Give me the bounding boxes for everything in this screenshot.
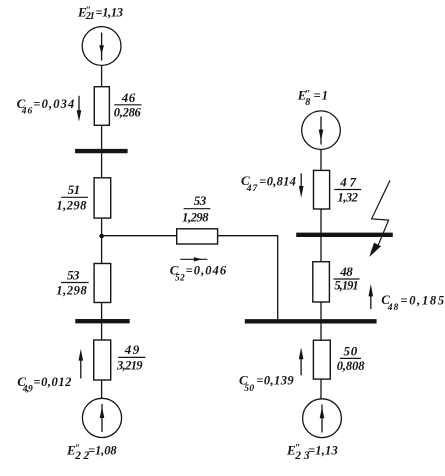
- bus bar 3 (fault bus): [296, 233, 393, 237]
- svg-text:=0,814: =0,814: [259, 175, 296, 189]
- svg-text:53: 53: [67, 267, 80, 282]
- fault lightning arrow: [369, 180, 390, 257]
- svg-text:50: 50: [344, 344, 358, 359]
- svg-text:=0,034: =0,034: [33, 97, 74, 111]
- resistor 47: [314, 170, 330, 209]
- wire bus 3 to resistor 48: [320, 237, 322, 262]
- label C47: [241, 173, 296, 194]
- svg-text:=1,13: =1,13: [308, 444, 338, 458]
- node E22 label: [66, 442, 117, 462]
- wire resistor 49 to generator G22: [101, 380, 103, 398]
- svg-text:=0,046: =0,046: [186, 264, 227, 278]
- svg-text:=0,185: =0,185: [400, 294, 444, 308]
- wire corner down to bus 4: [277, 235, 279, 319]
- bus bar 2: [75, 319, 129, 323]
- value label 53/1,298 (left): [56, 267, 88, 297]
- wire resistor 53 to corner: [218, 235, 278, 237]
- wire system source to resistor 47: [320, 150, 322, 171]
- resistor 46: [94, 87, 109, 126]
- wire junction to resistor 53 (horizontal): [102, 235, 177, 237]
- current arrow C46 (down): [77, 96, 82, 122]
- value label 49/3,219: [116, 342, 145, 373]
- system source (circle, arrow down): [302, 111, 341, 150]
- wire resistor 50 to generator G23: [320, 379, 322, 399]
- svg-text:1,298: 1,298: [56, 284, 87, 298]
- current arrow C52 (right): [180, 257, 207, 261]
- node E8 label: [297, 87, 328, 108]
- label C50: [239, 373, 294, 395]
- value label 50/0,808: [337, 344, 366, 374]
- resistor 48: [313, 262, 330, 302]
- wire bus 4 to resistor 50: [320, 324, 322, 341]
- wire resistor 47 to bus 3: [320, 209, 322, 235]
- svg-text:50: 50: [244, 384, 254, 394]
- svg-text:3,219: 3,219: [116, 359, 143, 373]
- resistor 49: [94, 340, 111, 380]
- svg-text:1,298: 1,298: [182, 211, 209, 225]
- junction node dot: [99, 234, 104, 239]
- value label 48/5,191: [334, 264, 360, 293]
- current arrow C48 (up): [369, 284, 374, 309]
- svg-text:46: 46: [21, 107, 33, 117]
- svg-text:0,808: 0,808: [337, 359, 366, 373]
- value label 53/1,298 (middle): [182, 193, 210, 225]
- svg-text:=1,08: =1,08: [88, 443, 117, 457]
- node E23 label: [286, 443, 338, 462]
- label C48: [381, 292, 444, 313]
- generator G21 (source circle, arrow down): [82, 27, 121, 66]
- wire junction to resistor 53 (left): [101, 236, 103, 264]
- svg-text:4,9: 4,9: [22, 385, 33, 395]
- current arrow C49 (up): [79, 349, 84, 379]
- value label 51/1,298: [56, 182, 88, 213]
- resistor 50: [313, 340, 330, 379]
- svg-text:5,191: 5,191: [334, 279, 358, 293]
- resistor 53 (horizontal): [177, 229, 218, 244]
- wire resistor 51 to node junction: [101, 218, 103, 236]
- wire resistor 46 to bus 1: [101, 125, 103, 149]
- wire generator G21 to resistor 46: [101, 65, 103, 86]
- label C49: [17, 374, 71, 395]
- bus bar 4: [245, 319, 377, 323]
- svg-text:8: 8: [305, 97, 310, 108]
- svg-text:47: 47: [246, 184, 259, 194]
- wire resistor 53 to bus 2: [101, 303, 103, 320]
- svg-text:51: 51: [68, 182, 81, 197]
- svg-text:52: 52: [175, 274, 185, 284]
- node E21 label: [77, 4, 123, 22]
- svg-text:=0,139: =0,139: [256, 374, 294, 388]
- svg-text:1,298: 1,298: [56, 199, 87, 213]
- resistor 51: [94, 178, 111, 218]
- label C46: [17, 96, 75, 117]
- svg-text:=0,012: =0,012: [33, 375, 71, 389]
- generator G22 (source circle, arrow up): [82, 398, 121, 437]
- current arrow C47 (down): [299, 173, 304, 198]
- bus bar 1: [75, 149, 128, 153]
- wire bus 2 to resistor 49: [101, 323, 103, 340]
- current arrow C50 (up): [299, 348, 304, 376]
- wire bus 1 to resistor 51: [101, 153, 103, 178]
- label C52: [170, 263, 227, 284]
- resistor 53 (left vertical): [94, 264, 111, 303]
- svg-text:1,32: 1,32: [338, 191, 358, 205]
- svg-text:0,286: 0,286: [114, 105, 142, 119]
- svg-text:48: 48: [339, 264, 353, 279]
- svg-text:21: 21: [85, 11, 95, 22]
- wire resistor 48 to bus 4: [320, 302, 322, 320]
- generator G23 (source circle, arrow up): [303, 399, 342, 438]
- svg-text:=1,13: =1,13: [96, 5, 124, 19]
- svg-text:53: 53: [194, 193, 207, 208]
- svg-text:46: 46: [121, 90, 136, 105]
- svg-text:48: 48: [387, 303, 399, 313]
- value label 47/1,32: [334, 175, 361, 205]
- value label 46/0,286: [114, 90, 142, 119]
